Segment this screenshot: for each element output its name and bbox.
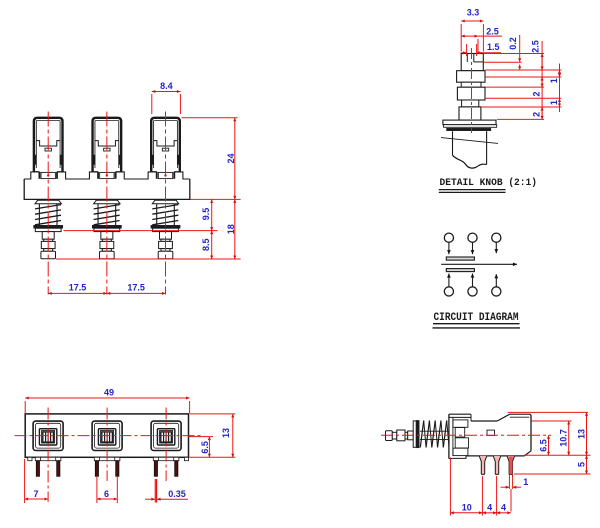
svg-text:49: 49	[104, 388, 114, 398]
svg-text:2: 2	[532, 112, 542, 117]
svg-text:17.5: 17.5	[127, 282, 145, 292]
svg-text:9.5: 9.5	[201, 208, 211, 221]
svg-text:1.5: 1.5	[487, 42, 500, 52]
svg-text:1: 1	[549, 100, 559, 105]
svg-text:10.7: 10.7	[559, 429, 569, 447]
svg-text:10: 10	[462, 502, 472, 512]
svg-text:3.3: 3.3	[467, 8, 480, 18]
svg-text:13: 13	[577, 429, 587, 439]
svg-text:6.5: 6.5	[200, 441, 210, 454]
svg-text:2.5: 2.5	[486, 26, 499, 36]
svg-text:2.5: 2.5	[530, 40, 540, 53]
svg-text:6.5: 6.5	[539, 439, 549, 452]
svg-text:DETAIL KNOB (2:1): DETAIL KNOB (2:1)	[440, 177, 538, 189]
svg-text:0.35: 0.35	[168, 489, 186, 499]
svg-text:17.5: 17.5	[69, 282, 87, 292]
svg-text:0.2: 0.2	[508, 37, 518, 50]
svg-text:4: 4	[487, 502, 492, 512]
svg-text:8.5: 8.5	[201, 239, 211, 252]
svg-text:6: 6	[104, 489, 109, 499]
svg-text:7: 7	[33, 489, 38, 499]
svg-text:CIRCUIT DIAGRAM: CIRCUIT DIAGRAM	[434, 312, 519, 324]
svg-text:5: 5	[577, 462, 587, 467]
svg-text:18: 18	[226, 224, 236, 234]
svg-text:2: 2	[532, 91, 542, 96]
svg-text:1: 1	[523, 477, 528, 487]
svg-text:4: 4	[501, 502, 506, 512]
svg-text:24: 24	[226, 153, 236, 163]
svg-text:13: 13	[221, 428, 231, 438]
svg-text:1: 1	[549, 78, 559, 83]
svg-text:8.4: 8.4	[160, 81, 173, 91]
